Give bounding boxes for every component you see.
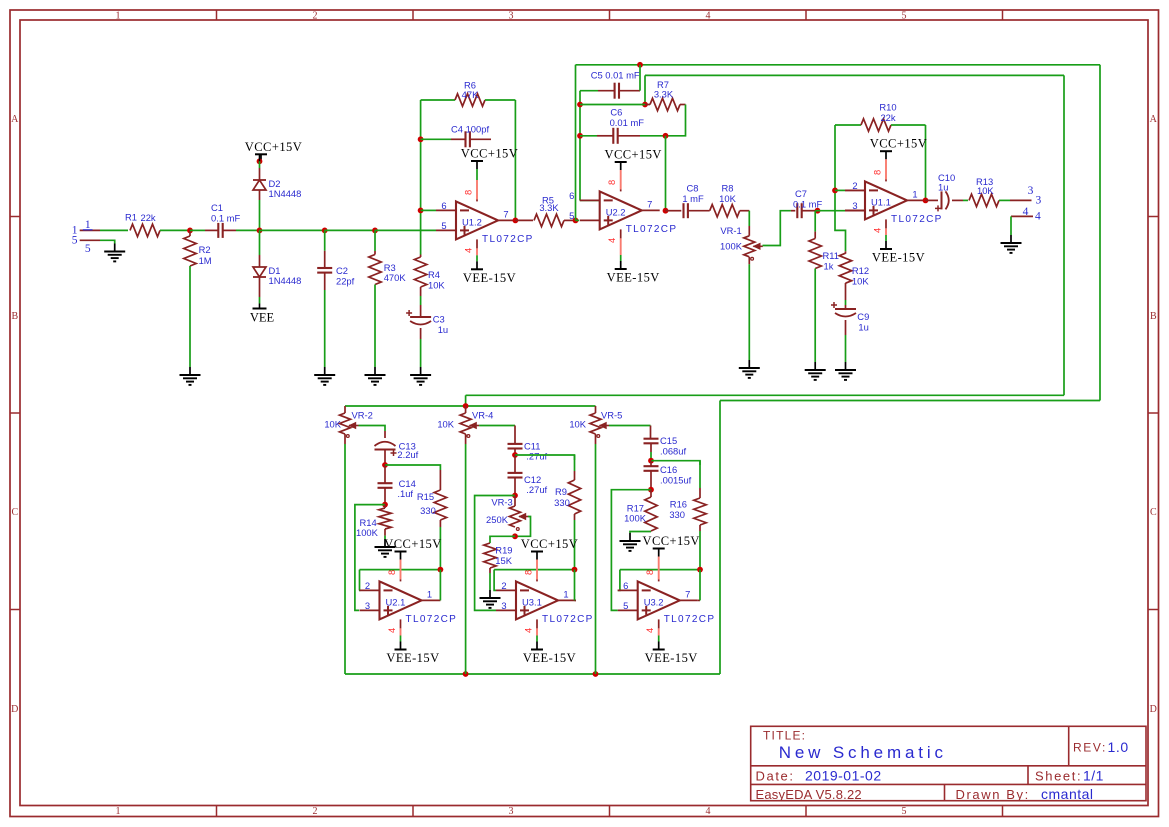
svg-text:.068uf: .068uf	[660, 446, 686, 457]
wire vr-top-rail	[345, 405, 596, 407]
op-amp U2.1 power pins	[386, 560, 401, 642]
svg-text:Date:: Date:	[756, 769, 795, 784]
svg-text:1 mF: 1 mF	[682, 193, 704, 204]
svg-text:22k: 22k	[880, 112, 895, 123]
wire VCC-D2	[259, 154, 261, 180]
title block text DrawnBy	[956, 786, 1094, 802]
node C13/C14	[382, 462, 388, 468]
diode D2 1N4448	[253, 178, 301, 199]
resistor R9 330	[554, 455, 581, 514]
svg-text:1u: 1u	[938, 182, 948, 193]
svg-text:47K: 47K	[462, 89, 479, 100]
wire netA-right-vert	[1099, 65, 1101, 401]
wire netA-bottom	[720, 400, 1100, 402]
svg-text:VCC+15V: VCC+15V	[245, 140, 302, 154]
wire C12-node	[514, 478, 516, 496]
svg-text:3: 3	[509, 806, 514, 817]
wire C9-ground	[845, 320, 847, 362]
resistor R4 10K	[414, 255, 445, 318]
capacitor C13 2.2uf	[375, 441, 419, 461]
op-amp U1.1 power pins	[872, 159, 887, 241]
svg-text:VCC+15V: VCC+15V	[870, 137, 927, 151]
title block text TITLE	[763, 729, 806, 743]
wire R7-right-down	[666, 105, 686, 136]
svg-text:6: 6	[569, 190, 574, 201]
wire netB-top	[645, 74, 1064, 76]
resistor R12 10K	[839, 251, 869, 286]
svg-text:4: 4	[606, 238, 617, 243]
resistor R1	[125, 211, 160, 236]
wire netA-down	[719, 401, 721, 675]
svg-text:VR-2: VR-2	[352, 410, 373, 421]
ground input5	[104, 244, 125, 262]
wire netB-down	[644, 75, 646, 104]
wire fb-pin6 U3.2	[618, 570, 620, 591]
ground VR-1	[739, 360, 760, 378]
svg-text:VCC+15V: VCC+15V	[384, 537, 441, 551]
svg-text:5: 5	[569, 210, 574, 221]
svg-text:1: 1	[116, 806, 121, 817]
svg-text:0.1 mF: 0.1 mF	[211, 213, 240, 224]
svg-text:5: 5	[623, 600, 628, 611]
svg-text:Sheet:: Sheet:	[1035, 769, 1082, 784]
power VEE	[250, 309, 275, 325]
title block text Sheet	[1035, 768, 1104, 784]
svg-text:VCC+15V: VCC+15V	[604, 148, 661, 162]
wire fb-rail U3.1	[494, 569, 574, 571]
svg-text:.0015uf: .0015uf	[660, 475, 692, 486]
svg-text:10K: 10K	[719, 193, 736, 204]
resistor R14 100K	[356, 505, 391, 538]
svg-text:100K: 100K	[624, 513, 647, 524]
svg-text:3: 3	[1028, 185, 1034, 197]
wire R9-fb	[574, 514, 576, 570]
svg-text:1: 1	[912, 188, 917, 199]
svg-text:4: 4	[706, 10, 711, 21]
wire pin2-R12	[835, 190, 846, 251]
potentiometer VR-5 10K	[569, 406, 622, 437]
node VR-4-top	[463, 403, 469, 409]
capacitor C12 .27uf	[508, 455, 548, 495]
node U1.1-out	[923, 198, 929, 204]
svg-text:R2: R2	[199, 244, 211, 255]
svg-text:15K: 15K	[495, 555, 512, 566]
capacitor C5 0.01mF	[580, 65, 640, 99]
svg-text:7: 7	[685, 588, 690, 599]
potentiometer VR-1 100K	[720, 225, 763, 260]
resistor R17 100K	[624, 490, 657, 531]
svg-text:4: 4	[872, 228, 883, 233]
svg-text:8: 8	[606, 180, 617, 185]
wire VR2-bottom	[344, 434, 346, 674]
ground C2	[314, 367, 335, 385]
svg-text:100K: 100K	[356, 527, 379, 538]
port pin 1	[72, 225, 100, 237]
op-amp U3.2	[618, 580, 716, 625]
diode D1 1N4448	[253, 265, 301, 286]
svg-text:2: 2	[313, 10, 318, 21]
svg-text:2019-01-02: 2019-01-02	[805, 768, 882, 784]
capacitor C10 1u	[926, 172, 964, 211]
svg-text:C9: C9	[857, 311, 869, 322]
wire node-pin3 U2.1	[355, 505, 385, 611]
svg-text:22pf: 22pf	[336, 276, 355, 287]
power VCC U3.1	[521, 537, 578, 560]
svg-text:7: 7	[647, 198, 652, 209]
wire node-R9	[515, 455, 575, 460]
svg-text:1/1: 1/1	[1083, 768, 1104, 784]
wire netA-left-vert	[575, 65, 577, 221]
power VEE U1.2	[463, 261, 516, 285]
svg-text:EasyEDA V5.8.22: EasyEDA V5.8.22	[756, 787, 862, 802]
node R7-left-vert	[577, 102, 583, 108]
svg-text:10K: 10K	[428, 280, 445, 291]
svg-text:1: 1	[116, 10, 121, 21]
capacitor C16 .0015uf	[644, 461, 692, 486]
svg-text:U3.1: U3.1	[522, 596, 542, 607]
wire C7-pin3	[816, 210, 866, 212]
svg-text:1u: 1u	[438, 324, 448, 335]
svg-text:VEE-15V: VEE-15V	[645, 651, 698, 665]
capacitor C1	[190, 202, 240, 238]
power VEE U1.1	[872, 241, 925, 265]
svg-text:REV:: REV:	[1073, 741, 1107, 755]
svg-text:B: B	[1150, 311, 1157, 322]
wire R1-junction	[160, 229, 190, 231]
node VR5-bottom	[593, 671, 599, 677]
resistor R5 3.3K	[515, 195, 575, 227]
op-amp U1.2 power pins	[463, 169, 478, 261]
ground R17	[620, 533, 641, 551]
power VEE U3.1	[523, 642, 576, 666]
ground R11	[805, 362, 826, 380]
op-amp U2.1	[360, 580, 458, 625]
svg-text:10K: 10K	[569, 419, 586, 430]
svg-text:D: D	[1150, 704, 1157, 715]
svg-text:3: 3	[509, 10, 514, 21]
svg-text:.1uf: .1uf	[397, 488, 413, 499]
node C11/C12	[512, 452, 518, 458]
svg-text:3.3K: 3.3K	[539, 202, 559, 213]
svg-text:R9: R9	[555, 486, 567, 497]
wire D-C2	[260, 229, 325, 231]
node C4-left	[418, 136, 424, 142]
svg-text:1N4448: 1N4448	[269, 275, 302, 286]
power VCC U3.2	[642, 534, 699, 557]
ground R2	[180, 367, 201, 385]
svg-text:2: 2	[852, 180, 857, 191]
wire R16-fb	[699, 525, 701, 570]
wire fb-left-vertical	[420, 100, 422, 255]
wire fb-rail U3.2	[620, 569, 700, 571]
svg-text:VEE-15V: VEE-15V	[386, 651, 439, 665]
wire U3.1-out-up	[575, 570, 577, 601]
node R3	[372, 228, 378, 234]
node C6-right	[663, 133, 669, 139]
wire pin6-stub	[421, 209, 436, 211]
svg-text:10K: 10K	[437, 419, 454, 430]
wire node-R15	[385, 465, 440, 470]
svg-text:6: 6	[623, 580, 628, 591]
port pin 5	[72, 235, 100, 247]
resistor R6 47K	[421, 80, 516, 107]
svg-text:3: 3	[365, 600, 370, 611]
net label 1	[83, 219, 93, 231]
svg-text:U2.1: U2.1	[386, 596, 406, 607]
svg-text:R8: R8	[722, 183, 734, 194]
svg-text:3: 3	[852, 200, 857, 211]
svg-text:8: 8	[872, 170, 883, 175]
wire U1.2-out	[514, 219, 517, 221]
capacitor C14 .1uf	[378, 465, 416, 499]
wire netB-down	[465, 395, 467, 406]
svg-text:C7: C7	[795, 188, 807, 199]
svg-text:1: 1	[427, 588, 432, 599]
node C7-right	[815, 208, 821, 214]
node U1.2-out	[513, 218, 519, 224]
ground R14	[375, 539, 396, 557]
wire C2-R3	[325, 229, 375, 231]
svg-text:VR-5: VR-5	[601, 410, 622, 421]
wire VR3-wiper	[516, 517, 531, 537]
svg-text:5: 5	[902, 806, 907, 817]
ground C9	[835, 362, 856, 380]
wire C14-node	[384, 488, 386, 505]
wire R17-ground	[630, 531, 651, 533]
node fb U3.2	[697, 567, 703, 573]
potentiometer VR-2 10K	[324, 406, 373, 437]
svg-text:U1.1: U1.1	[871, 196, 891, 207]
svg-text:2.2uf: 2.2uf	[397, 449, 418, 460]
wire R11-ground	[814, 269, 816, 363]
op-amp U2.2	[569, 190, 677, 235]
wire bottom-rail	[345, 673, 720, 675]
svg-text:2: 2	[313, 806, 318, 817]
svg-text:2: 2	[501, 580, 506, 591]
power VCC U2.1	[384, 537, 441, 560]
svg-text:VCC+15V: VCC+15V	[461, 147, 518, 161]
title block box	[751, 726, 1146, 800]
svg-text:10K: 10K	[977, 185, 994, 196]
svg-text:4: 4	[386, 628, 397, 633]
svg-text:C3: C3	[433, 314, 445, 325]
capacitor C7 0.1mF	[791, 188, 823, 218]
svg-text:TL072CP: TL072CP	[542, 614, 594, 625]
op-amp U3.2 power pins	[644, 557, 659, 642]
capacitor C15 .068uf	[644, 435, 687, 457]
wire R2-ground	[189, 266, 191, 367]
capacitor C8 1mF	[666, 183, 710, 219]
wire C3-ground	[420, 328, 422, 367]
potentiometer VR-3 250K	[486, 496, 528, 531]
svg-text:C8: C8	[687, 183, 699, 194]
svg-text:100K: 100K	[720, 241, 743, 252]
wire C16-node	[650, 471, 652, 490]
svg-text:1M: 1M	[199, 255, 212, 266]
ground C3	[410, 367, 431, 385]
wire netB-right-vert	[1063, 75, 1065, 395]
node C16/R17	[648, 487, 654, 493]
svg-text:3: 3	[501, 600, 506, 611]
svg-text:470K: 470K	[384, 272, 407, 283]
resistor R11 1k	[809, 211, 839, 272]
svg-text:R10: R10	[879, 102, 896, 113]
wire fb-right-vertical	[514, 100, 516, 220]
wire netA-top	[576, 64, 1101, 66]
title block text EasyEDA	[756, 787, 862, 802]
svg-text:.27uf: .27uf	[526, 451, 547, 462]
svg-text:New Schematic: New Schematic	[779, 743, 947, 762]
capacitor C6 0.01mF	[580, 107, 666, 144]
svg-text:A: A	[11, 114, 19, 125]
resistor R13 10K	[963, 176, 1010, 207]
node VR3-bottom	[512, 533, 518, 539]
node fb U3.1	[572, 567, 578, 573]
op-amp U3.1 power pins	[523, 560, 538, 642]
svg-text:10K: 10K	[324, 419, 341, 430]
node fb U2.1	[438, 567, 444, 573]
svg-text:3.3K: 3.3K	[654, 89, 674, 100]
svg-text:VR-4: VR-4	[472, 410, 493, 421]
net label 5	[85, 243, 91, 255]
svg-text:TL072CP: TL072CP	[406, 614, 458, 625]
svg-text:R12: R12	[852, 265, 869, 276]
wire C1-D	[236, 229, 260, 231]
capacitor C9 1u	[831, 302, 869, 333]
svg-text:C2: C2	[336, 265, 348, 276]
resistor R3	[369, 230, 407, 284]
title block text New Schematic	[779, 743, 947, 762]
svg-text:1N4448: 1N4448	[269, 188, 302, 199]
port pin 3	[1010, 185, 1042, 207]
potentiometer VR-4 10K	[437, 406, 493, 437]
svg-text:VR-1: VR-1	[720, 225, 741, 236]
wire pin4-ground	[1010, 216, 1012, 235]
power VEE U2.2	[607, 261, 660, 285]
svg-text:8: 8	[523, 570, 534, 575]
svg-text:2: 2	[365, 580, 370, 591]
svg-text:R1: R1	[125, 211, 137, 222]
wire pin2-stub	[835, 189, 865, 191]
node C14/R14	[382, 502, 388, 508]
svg-text:VCC+15V: VCC+15V	[521, 537, 578, 551]
svg-text:VEE-15V: VEE-15V	[607, 271, 660, 285]
wire R8-VR1	[748, 211, 750, 236]
node C6-left	[577, 133, 583, 139]
svg-text:TITLE:: TITLE:	[763, 729, 806, 743]
wire R3-ground	[374, 285, 376, 368]
svg-text:7: 7	[503, 208, 508, 219]
wire input1	[100, 229, 128, 231]
wire C5C6-left-vert	[579, 91, 581, 201]
svg-text:VEE-15V: VEE-15V	[463, 271, 516, 285]
svg-text:330: 330	[669, 509, 685, 520]
wire fb-pin2 U2.1	[358, 570, 361, 591]
svg-text:4: 4	[1023, 206, 1029, 218]
wire node-pin5 U3.2	[611, 490, 651, 611]
svg-text:250K: 250K	[486, 514, 509, 525]
wire U3.2-out-up	[698, 570, 700, 601]
svg-text:R15: R15	[417, 491, 434, 502]
svg-text:R19: R19	[495, 545, 512, 556]
wire C13-node	[384, 450, 386, 466]
wire input5	[100, 240, 115, 243]
wire fb-pin2 U3.1	[494, 570, 496, 591]
power VEE U3.2	[645, 642, 698, 666]
resistor R16 330	[669, 461, 706, 525]
svg-text:22k: 22k	[141, 212, 156, 223]
svg-text:D: D	[11, 704, 18, 715]
ground R19	[480, 590, 501, 608]
wire R10-left-vert	[834, 125, 836, 190]
wire VR4-bottom	[465, 434, 467, 674]
svg-text:C4 100pf: C4 100pf	[451, 123, 489, 134]
wire R12-C9	[845, 283, 847, 309]
resistor R8 10K	[710, 183, 750, 217]
svg-text:C: C	[11, 507, 18, 518]
capacitor C4 100pf	[421, 123, 491, 147]
wire VR3-R19	[490, 536, 515, 543]
svg-text:TL072CP: TL072CP	[482, 234, 534, 245]
node C5-right	[637, 62, 643, 68]
op-amp U2.2 power pins	[606, 170, 621, 261]
svg-text:VR-3: VR-3	[491, 497, 512, 508]
wire R10-right-vert	[925, 125, 927, 200]
wire netB-bottom	[466, 394, 1064, 396]
svg-text:C16: C16	[660, 464, 677, 475]
wire R5-pin5	[576, 219, 580, 221]
wire R3-U1.2	[375, 229, 436, 231]
title block text Date	[756, 768, 882, 784]
svg-text:10K: 10K	[852, 276, 869, 287]
op-amp U1.2	[436, 200, 534, 245]
wire VR4-wiper	[479, 426, 515, 444]
svg-text:0.01 mF: 0.01 mF	[610, 117, 645, 128]
node VR4-bottom	[463, 671, 469, 677]
svg-text:VEE: VEE	[250, 311, 275, 325]
wire R15-fb	[439, 520, 441, 570]
wire VR1-ground	[748, 257, 750, 360]
wire VR1-wiper	[763, 211, 791, 246]
node C15/C16	[648, 458, 654, 464]
resistor R2	[184, 230, 212, 266]
svg-text:C: C	[1150, 507, 1157, 518]
svg-text:R4: R4	[428, 269, 440, 280]
svg-text:1u: 1u	[858, 322, 868, 333]
wire R14-ground	[384, 529, 386, 539]
power VCC D2	[245, 140, 302, 163]
wire C11-node	[514, 449, 516, 456]
svg-text:U3.2: U3.2	[644, 596, 664, 607]
op-amp U1.1	[845, 180, 943, 225]
wire VR5-bottom	[595, 434, 597, 674]
wire C15-node	[650, 444, 652, 461]
svg-text:B: B	[11, 311, 18, 322]
wire node-R16	[651, 461, 700, 465]
svg-text:5: 5	[72, 235, 78, 247]
wire VR2-wiper	[359, 426, 386, 439]
svg-text:330: 330	[420, 505, 436, 516]
node C2	[322, 228, 328, 234]
svg-text:VEE-15V: VEE-15V	[523, 651, 576, 665]
svg-text:4: 4	[463, 248, 474, 253]
capacitor C3 1u	[406, 310, 448, 335]
wire VR5-wiper	[609, 426, 651, 439]
capacitor C2	[317, 230, 354, 290]
svg-text:5: 5	[902, 10, 907, 21]
capacitor C11 .27uf	[508, 441, 548, 462]
port pin 4	[1011, 206, 1041, 223]
